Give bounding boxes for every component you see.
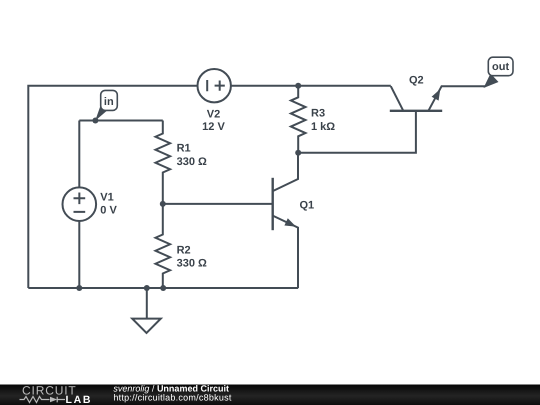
- svg-text:V2: V2: [207, 108, 220, 120]
- svg-text:12 V: 12 V: [202, 121, 225, 133]
- svg-text:R2: R2: [177, 244, 191, 256]
- svg-text:R3: R3: [311, 108, 325, 120]
- svg-text:0 V: 0 V: [100, 205, 117, 217]
- svg-text:V1: V1: [100, 191, 113, 203]
- svg-text:330 Ω: 330 Ω: [177, 156, 207, 168]
- svg-text:http://circuitlab.com/c8bkust: http://circuitlab.com/c8bkust: [113, 393, 232, 403]
- svg-text:LAB: LAB: [66, 394, 93, 405]
- svg-text:R1: R1: [177, 143, 191, 155]
- svg-text:out: out: [492, 61, 509, 73]
- svg-text:Q1: Q1: [300, 200, 315, 212]
- svg-text:in: in: [104, 96, 114, 108]
- svg-text:1 kΩ: 1 kΩ: [311, 121, 335, 133]
- svg-text:Q2: Q2: [409, 74, 424, 86]
- svg-text:330 Ω: 330 Ω: [177, 258, 207, 270]
